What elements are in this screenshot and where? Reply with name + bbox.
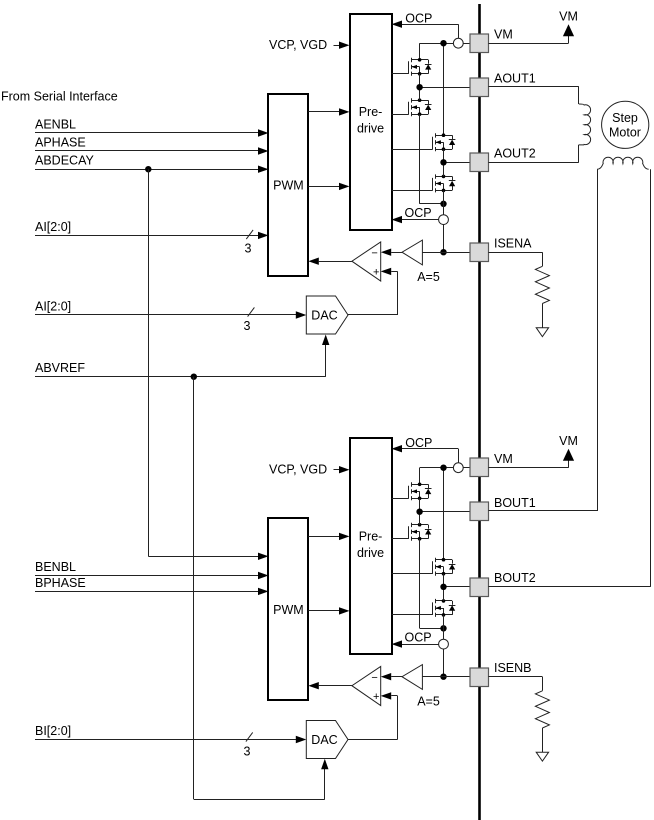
- wire AOUT1 node (channel A): [420, 74, 471, 100]
- main device boundary line (net VM/OUT rail): [478, 4, 481, 820]
- winding A wire from AOUT1: [488, 87, 578, 105]
- amplifier A=5 (channel B): [402, 665, 440, 709]
- wire PWM B to Pre-drive B (upper): [308, 533, 349, 540]
- gate wire Pre-drive A to Q3 high-side: [392, 149, 433, 151]
- terminal VM (channel A): [470, 28, 513, 53]
- transistor Q1 high-side 1 (channel B): [409, 482, 432, 500]
- input AENBL (wire into PWM A): [35, 117, 269, 136]
- svg-text:3: 3: [244, 745, 251, 759]
- gate wire Pre-drive B to Q2 low-side: [392, 538, 409, 540]
- DAC (channel A): [306, 296, 348, 334]
- OCP sense circle (bottom, channel A): [439, 215, 449, 225]
- inductor winding A (step motor phase A): [579, 104, 591, 145]
- input ABVREF wire: [35, 361, 326, 376]
- wire ABDECAY branch down to PWM B: [148, 169, 268, 560]
- svg-text:ABDECAY: ABDECAY: [35, 154, 94, 168]
- svg-text:OCP: OCP: [405, 12, 432, 26]
- svg-text:BENBL: BENBL: [35, 560, 76, 574]
- gate wire Pre-drive A to Q1 high-side: [392, 73, 409, 75]
- transistor Q3 high-side 2 (channel A): [433, 133, 456, 151]
- OCP output (bottom) of channel B: [392, 631, 439, 648]
- terminal ISENB: [470, 661, 532, 686]
- input BPHASE (wire into PWM B): [35, 576, 269, 595]
- junction dot AOUT1 node: [416, 84, 422, 90]
- input BI[2:0] bus to DAC B with width-3 slash: [35, 724, 306, 759]
- svg-text:ISENA: ISENA: [494, 237, 532, 251]
- wire low-side 1 source to sense node (channel B): [420, 539, 444, 629]
- input ABDECAY (wire into PWM A): [35, 154, 269, 173]
- OCP sense circle (bottom, channel B): [439, 639, 449, 649]
- Pre-drive block (channel A): [350, 14, 392, 230]
- wire sense column through OCP to ISENB (channel B): [443, 615, 445, 677]
- wire PWM A to Pre-drive A (lower): [308, 183, 349, 190]
- junction dot sense join (channel A): [440, 201, 446, 207]
- transistor Q4 low-side 2 (channel B): [433, 599, 456, 617]
- svg-text:3: 3: [244, 319, 251, 333]
- svg-text:ABVREF: ABVREF: [35, 361, 85, 375]
- wire ABVREF branch down to DAC B ref input: [194, 377, 329, 800]
- ground symbol (channel B): [536, 752, 548, 761]
- wire BOUT2 node (channel B): [444, 574, 471, 601]
- PWM block (channel A): [268, 94, 308, 276]
- ground symbol (channel A): [536, 328, 548, 337]
- svg-text:AI[2:0]: AI[2:0]: [35, 299, 71, 313]
- svg-text:+: +: [373, 691, 379, 703]
- svg-text:AOUT2: AOUT2: [494, 147, 536, 161]
- junction dot ISENA node: [440, 249, 446, 255]
- transistor Q2 low-side 1 (channel B): [409, 523, 432, 541]
- wire sense column through OCP to ISENA (channel A): [443, 190, 445, 252]
- op-amp current comparator (channel B): [352, 666, 381, 705]
- wire VM terminal to VM supply arrow (channel A): [488, 34, 568, 44]
- svg-text:OCP: OCP: [405, 206, 432, 220]
- sense resistor RISENA wire: [488, 252, 542, 266]
- transistor Q1 high-side 1 (channel A): [409, 58, 432, 76]
- label: From Serial Interface: [1, 90, 118, 104]
- op-amp current comparator (channel A): [352, 242, 381, 281]
- OCP output (bottom) of channel A: [392, 206, 439, 223]
- terminal BOUT1: [470, 496, 536, 520]
- amplifier A=5 (channel A): [402, 240, 440, 284]
- junction dot AOUT2 node: [440, 159, 446, 165]
- junction dot VM rail (channel B): [440, 465, 446, 471]
- junction dot on ABDECAY wire: [145, 166, 151, 172]
- transistor Q4 low-side 2 (channel A): [433, 174, 456, 192]
- sense resistor RISENB wire: [488, 677, 542, 691]
- PWM block (channel B): [268, 518, 308, 700]
- junction dot on ABVREF wire: [191, 374, 197, 380]
- terminal AOUT1: [470, 72, 536, 97]
- svg-text:DAC: DAC: [311, 733, 337, 747]
- step motor symbol: [602, 101, 649, 148]
- svg-text:VM: VM: [494, 452, 513, 466]
- wire A=5 output to comparator minus input: [381, 249, 402, 256]
- svg-text:AENBL: AENBL: [35, 117, 76, 131]
- VM supply rail wire (channel B): [420, 468, 471, 560]
- wire ABVREF up into DAC A ref input: [322, 335, 329, 377]
- svg-text:BPHASE: BPHASE: [35, 576, 86, 590]
- input APHASE (wire into PWM A): [35, 135, 269, 154]
- winding B wire from BOUT1: [488, 169, 597, 511]
- transistor Q3 high-side 2 (channel B): [433, 558, 456, 576]
- terminal VM (channel B): [470, 452, 513, 476]
- wire PWM B to Pre-drive B (lower): [308, 607, 349, 614]
- svg-text:PWM: PWM: [273, 178, 304, 192]
- gate wire Pre-drive A to Q2 low-side: [392, 114, 409, 116]
- svg-text:VM: VM: [559, 434, 578, 448]
- svg-text:VM: VM: [494, 28, 513, 42]
- wire AOUT2 node (channel A): [444, 149, 471, 176]
- input AI[2:0] bus to PWM A with width-3 slash: [35, 220, 269, 256]
- svg-text:drive: drive: [357, 546, 384, 560]
- junction dot BOUT1 node: [416, 509, 422, 515]
- input AI[2:0] bus to DAC A with width-3 slash: [35, 299, 306, 333]
- junction dot sense join (channel B): [440, 625, 446, 631]
- svg-text:Pre-: Pre-: [359, 530, 383, 544]
- svg-text:3: 3: [245, 242, 252, 256]
- svg-text:PWM: PWM: [273, 603, 304, 617]
- svg-text:Motor: Motor: [609, 126, 641, 140]
- svg-text:+: +: [373, 267, 379, 279]
- input BENBL (wire into PWM B): [35, 560, 269, 579]
- junction dot ISENB node: [440, 674, 446, 680]
- svg-text:Step: Step: [612, 111, 638, 125]
- winding A wire to AOUT2: [488, 145, 578, 163]
- svg-text:APHASE: APHASE: [35, 135, 86, 149]
- gate wire Pre-drive B to Q4 low-side: [392, 614, 433, 616]
- svg-text:OCP: OCP: [405, 631, 432, 645]
- svg-text:BOUT1: BOUT1: [494, 496, 536, 510]
- junction dot VM rail (channel A): [440, 40, 446, 46]
- wire BOUT1 node (channel B): [420, 498, 471, 524]
- OCP output (top) of channel A: [392, 12, 459, 39]
- inductor winding B (step motor phase B): [597, 157, 648, 169]
- wire comparator output to PWM B: [308, 682, 352, 689]
- gate wire Pre-drive B to Q3 high-side: [392, 573, 433, 575]
- terminal AOUT2: [470, 147, 536, 172]
- svg-text:AI[2:0]: AI[2:0]: [35, 220, 71, 234]
- DAC (channel B): [306, 721, 348, 759]
- wire low-side 1 source to sense node (channel A): [420, 114, 444, 204]
- svg-text:−: −: [371, 247, 377, 259]
- svg-text:BOUT2: BOUT2: [494, 571, 536, 585]
- svg-text:A=5: A=5: [417, 695, 440, 709]
- svg-text:−: −: [371, 672, 377, 684]
- input VCP, VGD into Pre-drive B: [269, 463, 350, 477]
- svg-text:DAC: DAC: [311, 309, 337, 323]
- svg-text:VM: VM: [559, 9, 578, 23]
- OCP sense circle (top, channel B): [453, 463, 463, 473]
- svg-text:A=5: A=5: [417, 270, 440, 284]
- wire DAC B output to comparator plus input: [348, 692, 398, 739]
- junction dot BOUT2 node: [440, 584, 446, 590]
- svg-text:drive: drive: [357, 122, 384, 136]
- svg-text:ISENB: ISENB: [494, 661, 532, 675]
- resistor R-sense (channel A): [535, 266, 549, 327]
- wire comparator output to PWM A: [308, 258, 352, 265]
- wire ISENB node to gain stage: [422, 676, 470, 678]
- Pre-drive block (channel B): [350, 438, 392, 654]
- wire DAC A output to comparator plus input: [348, 268, 398, 315]
- svg-text:VCP, VGD: VCP, VGD: [269, 463, 327, 477]
- svg-text:BI[2:0]: BI[2:0]: [35, 724, 71, 738]
- OCP output (top) of channel B: [392, 436, 459, 463]
- winding B wire to BOUT2: [488, 169, 650, 587]
- resistor R-sense (channel B): [535, 691, 549, 752]
- OCP sense circle (top, channel A): [453, 38, 463, 48]
- power VM arrow (channel A): [559, 9, 578, 36]
- power VM arrow (channel B): [559, 434, 578, 461]
- svg-text:VCP, VGD: VCP, VGD: [269, 38, 327, 52]
- wire A=5 output to comparator minus input: [381, 673, 402, 680]
- VM supply rail wire (channel A): [420, 43, 471, 135]
- svg-text:From Serial Interface: From Serial Interface: [1, 90, 118, 104]
- wire PWM A to Pre-drive A (upper): [308, 108, 349, 115]
- gate wire Pre-drive B to Q1 high-side: [392, 498, 409, 500]
- terminal ISENA: [470, 237, 532, 262]
- gate wire Pre-drive A to Q4 low-side: [392, 190, 433, 192]
- svg-text:AOUT1: AOUT1: [494, 72, 536, 86]
- transistor Q2 low-side 1 (channel A): [409, 98, 432, 116]
- wire ISENA node to gain stage: [422, 252, 470, 254]
- wire VM terminal to VM supply arrow (channel B): [488, 459, 568, 468]
- input VCP, VGD into Pre-drive A: [269, 38, 350, 52]
- svg-text:Pre-: Pre-: [359, 105, 383, 119]
- terminal BOUT2: [470, 571, 536, 596]
